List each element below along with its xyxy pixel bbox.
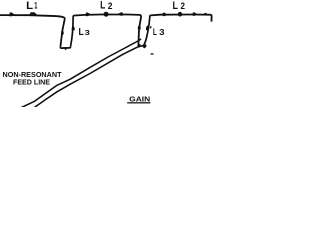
svg-text:L: L (153, 27, 157, 38)
svg-text:L: L (173, 0, 179, 12)
current arrow on stub2 left wire (pointing down) (138, 26, 141, 31)
svg-text:FEED LINE: FEED LINE (13, 77, 50, 86)
svg-text:1: 1 (34, 1, 37, 11)
small mark on wire near right corner (204, 13, 206, 15)
current arrow on section 2 left (pointing right) (86, 13, 91, 17)
junction arrow where upper feed wire meets stub2 left wire (137, 44, 140, 47)
current node dot on section 3 (178, 12, 183, 17)
svg-text:L: L (26, 0, 33, 12)
feed line upper conductor (17, 39, 141, 109)
svg-text:L: L (100, 0, 106, 12)
current arrow on section 1 left (10, 12, 15, 16)
current arrow with dot on section 1 right (29, 12, 36, 16)
current arrow on section 2 right (pointing left) (117, 12, 123, 15)
junction arrow where lower feed wire meets stub2 right wire (143, 44, 147, 48)
current arrow on section 3 right (pointing right) (193, 12, 198, 16)
feed line lower conductor (32, 45, 145, 109)
svg-text:2: 2 (181, 1, 186, 11)
current arrow on stub1 left wire (pointing down) (61, 31, 64, 36)
svg-text:2: 2 (108, 1, 113, 11)
speck near stub2 right wire (150, 26, 151, 28)
stray mark below stub2 (151, 53, 154, 54)
svg-text:3: 3 (85, 28, 90, 37)
stub1 right vertical wire (71, 16, 75, 47)
svg-text:L: L (79, 26, 85, 38)
arrow below stub1 shorting bar (63, 47, 68, 50)
current arrow on section 3 left (pointing left) (161, 13, 166, 17)
current node dot on section 2 (104, 12, 109, 17)
svg-text:3: 3 (159, 28, 165, 37)
wire: antenna section 2 (middle element) with corner down into stub 2 (75, 15, 142, 47)
wire: antenna section 1 (left element) with corner down into stub 1 (0, 15, 65, 47)
current arrow on stub2 right wire (pointing up) (146, 25, 149, 30)
wire: antenna section 3 (right element) with corner down at right edge (151, 15, 212, 22)
underline under GAIN (127, 102, 150, 103)
stub L3 #1: shorting bar at bottom (60, 47, 70, 49)
stub2 right vertical wire curving into feed line (144, 15, 151, 45)
svg-text:GAIN: GAIN (129, 95, 150, 104)
current arrow on stub1 right wire (pointing up) (72, 26, 75, 31)
